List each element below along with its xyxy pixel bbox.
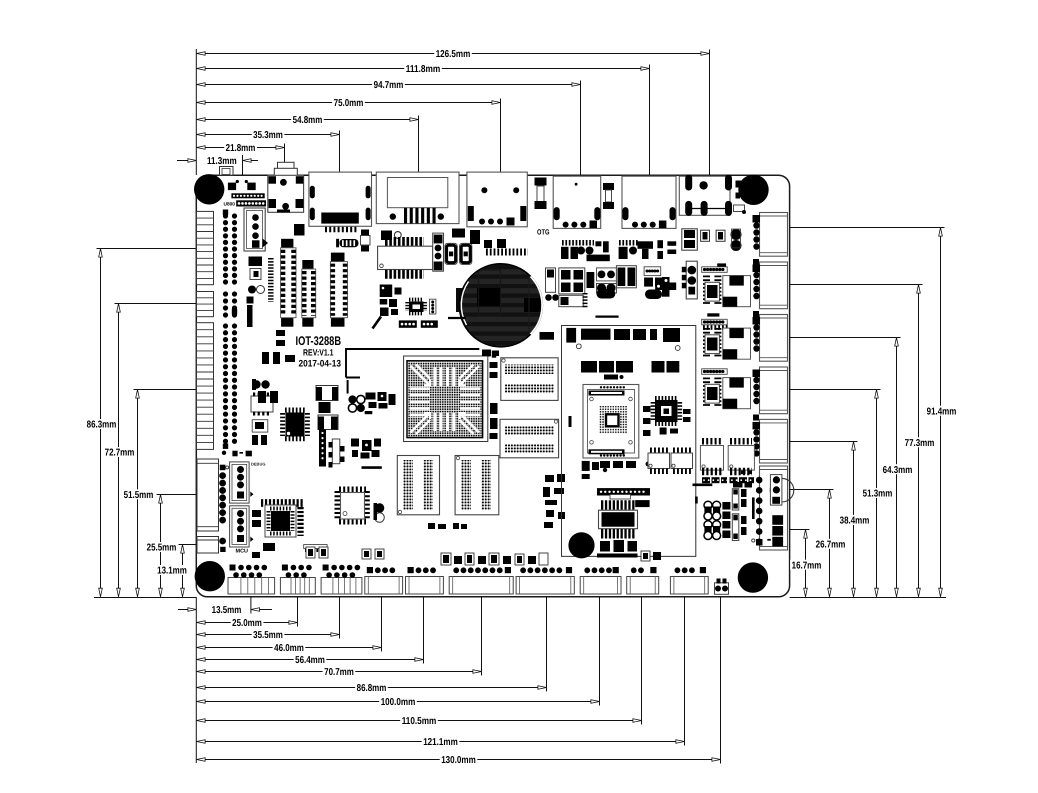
power inductor L2 xyxy=(316,386,338,414)
svg-text:70.7mm: 70.7mm xyxy=(324,667,354,678)
svg-text:126.5mm: 126.5mm xyxy=(436,49,471,60)
dimension 100.0mm (bottom) xyxy=(197,597,600,708)
dimension 38.4mm (right) xyxy=(790,442,871,597)
dimension 121.1mm (bottom) xyxy=(197,597,685,748)
svg-text:11.3mm: 11.3mm xyxy=(207,156,237,167)
vertical connector with pads (right of U3) xyxy=(433,233,444,271)
svg-text:2017-04-13: 2017-04-13 xyxy=(299,359,342,370)
push button SW1 (bottom right) xyxy=(715,579,729,595)
DEBUG connector xyxy=(230,461,266,503)
dimension 11.3mm (top) xyxy=(177,155,258,175)
svg-text:54.8mm: 54.8mm xyxy=(293,115,323,126)
edge connector ladder block 3 xyxy=(197,323,214,450)
power quad part xyxy=(559,268,595,294)
passives pair left xyxy=(252,379,270,390)
small parts above IC U3 xyxy=(361,230,402,252)
small parts right of QFN xyxy=(660,409,691,435)
bottom connector K9 (1-row) xyxy=(627,567,659,594)
keepout vertical continuation xyxy=(347,380,349,394)
dimension baseline (right) xyxy=(790,597,946,599)
dimension 75.0mm (top) xyxy=(197,98,501,176)
two stacked parts with round pads xyxy=(597,268,617,293)
module row 3: transformer xyxy=(723,378,751,409)
caps right xyxy=(701,229,742,251)
tall white box left of battery zone xyxy=(545,268,559,301)
right edge connector CN4 xyxy=(753,367,788,414)
dimension 77.3mm (right) xyxy=(790,285,936,597)
parts above edge boxes xyxy=(222,451,252,457)
CPU socket pin grid xyxy=(599,406,627,434)
SOIC8 U5 xyxy=(648,450,670,471)
pin comb row above QFP U10 xyxy=(260,499,304,507)
svg-text:46.0mm: 46.0mm xyxy=(274,643,304,654)
black square bottom of CN6 dots xyxy=(756,539,763,546)
parts right of OTG xyxy=(734,181,747,215)
comb part with dots xyxy=(644,267,662,287)
HDMI connector J3 xyxy=(309,172,372,229)
DDR module D3 xyxy=(397,456,439,515)
USB stack J6 xyxy=(553,176,601,228)
triangle marker left of FPC1 xyxy=(263,239,269,248)
svg-text:U800: U800 xyxy=(224,201,236,207)
dimension 46.0mm (bottom) xyxy=(197,597,382,654)
right edge connector CN6 (jack + SIM) xyxy=(759,466,787,550)
CPU socket outline xyxy=(583,385,639,459)
svg-text:13.1mm: 13.1mm xyxy=(157,566,187,577)
CPU socket center hole xyxy=(605,413,621,428)
audio jack barrel arc xyxy=(770,478,794,502)
dimension 64.3mm (right) xyxy=(790,338,914,597)
small rect column right of socket xyxy=(643,406,651,436)
svg-text:25.5mm: 25.5mm xyxy=(147,543,177,554)
svg-text:75.0mm: 75.0mm xyxy=(334,98,364,109)
module row 2: SOIC xyxy=(705,328,719,358)
dimension 54.8mm (top) xyxy=(197,115,419,176)
tick column right of pin header xyxy=(268,258,274,302)
IC U3 (wide, top middle) xyxy=(378,242,433,275)
BGA ball grid xyxy=(408,362,482,437)
small parts below DDR D3/D4 xyxy=(428,523,467,529)
small parts inside module mid xyxy=(582,461,608,479)
passives cluster left of SOM xyxy=(543,474,565,528)
bottom connector K10 (1-row) xyxy=(670,567,708,594)
SOM top row of pads xyxy=(566,328,680,343)
dimension 13.5mm (bottom) xyxy=(178,597,272,616)
transformer pair box 1 xyxy=(700,446,723,471)
svg-text:35.3mm: 35.3mm xyxy=(253,130,283,141)
caps row below socket xyxy=(600,461,651,468)
dimension 51.3mm (right) xyxy=(790,390,894,597)
svg-text:56.4mm: 56.4mm xyxy=(295,655,325,666)
electrolytic capsules cluster xyxy=(704,501,721,539)
pin header column group 2 (2x4) xyxy=(226,294,238,315)
svg-text:121.1mm: 121.1mm xyxy=(423,737,458,748)
QFP IC U11 (big, white) xyxy=(338,490,367,522)
module row 2: transformer xyxy=(723,328,751,359)
squares at keepout line end xyxy=(482,332,554,358)
comb strip PMIC area 2 xyxy=(595,241,638,259)
parts above battery xyxy=(452,229,528,253)
BGA white slot glyphs left xyxy=(410,387,430,416)
QFP IC U9 xyxy=(283,410,308,439)
dimension 91.4mm (right) xyxy=(790,228,958,597)
passives column below 4-pin connector xyxy=(247,257,265,328)
SOM vias xyxy=(576,344,680,351)
slash mark xyxy=(373,317,382,329)
pad combs below right pair boxes xyxy=(702,472,754,484)
svg-text:16.7mm: 16.7mm xyxy=(792,560,822,571)
svg-text:86.8mm: 86.8mm xyxy=(357,683,387,694)
svg-text:IOT-3288B: IOT-3288B xyxy=(296,334,342,348)
T-shaped part xyxy=(638,241,654,259)
dimension 70.7mm (bottom) xyxy=(197,597,482,678)
edge connector plain box 2 xyxy=(197,537,219,554)
dimension 111.8mm (top) xyxy=(197,64,650,176)
dimension 16.7mm (right) xyxy=(790,530,823,597)
svg-text:OTG: OTG xyxy=(537,227,550,236)
BGA white diagonal SW xyxy=(411,413,431,434)
small IC U2 (left, with pads) xyxy=(251,395,273,414)
dimension 26.7mm (right) xyxy=(790,490,847,597)
small parts right column xyxy=(741,259,759,474)
module row 3: SOIC xyxy=(705,378,719,408)
svg-text:130.0mm: 130.0mm xyxy=(441,755,476,766)
dimension 126.5mm (top) xyxy=(197,49,710,176)
QFN U12 above BGA xyxy=(407,300,425,314)
pin header column group 3 (2x19) xyxy=(223,326,235,449)
cluster below-mid xyxy=(351,439,381,459)
parts under J1 xyxy=(228,180,256,190)
bottom connector K3 (2-row) xyxy=(321,565,362,595)
SOIC8 U6 xyxy=(671,450,693,471)
tact switch S1 xyxy=(445,243,457,264)
round cap right of U11 xyxy=(374,503,385,522)
svg-text:51.3mm: 51.3mm xyxy=(863,489,893,500)
CPU BGA U8 outline xyxy=(404,356,488,442)
edge connector ladder block 1 xyxy=(197,211,214,284)
svg-text:51.5mm: 51.5mm xyxy=(124,490,154,501)
bottom connector K2 (2-row) xyxy=(280,565,315,595)
comb strip PMIC area 1 xyxy=(561,243,610,261)
BGA white slot glyphs bottom xyxy=(433,413,455,432)
BGA white diagonal NW xyxy=(411,365,431,386)
passives right of BGA xyxy=(482,350,499,440)
module row 3: comb strip xyxy=(702,369,728,375)
bottom connector K6 (1-row) xyxy=(449,567,513,594)
audio jack J2 body xyxy=(268,175,305,235)
svg-text:25.0mm: 25.0mm xyxy=(232,618,262,629)
audio jack body (right) xyxy=(770,475,782,506)
plus-shaped part xyxy=(655,277,676,297)
QFP IC U10 (black with ring) xyxy=(265,505,296,537)
module M1: SOIC xyxy=(705,276,719,306)
dimension baseline (left) xyxy=(94,597,196,599)
module row 2: comb strip xyxy=(702,319,728,325)
four round pads xyxy=(348,395,365,412)
small column parts xyxy=(657,240,676,259)
cluster mid-bottom (440-545) xyxy=(441,553,548,565)
SOM second row of pads xyxy=(581,361,679,380)
dimension 35.3mm (top) xyxy=(197,130,340,176)
pin header column group 1 (2x10) xyxy=(223,210,235,283)
parts left of U10 xyxy=(252,420,275,558)
squares column right of capsules xyxy=(722,502,730,538)
dumbbell part between J6 and J7 xyxy=(603,183,614,209)
dimension 94.7mm (top) xyxy=(197,80,581,176)
module M1: transformer xyxy=(723,276,751,307)
FPC connector F1 xyxy=(281,239,296,327)
svg-text:86.3mm: 86.3mm xyxy=(87,420,117,431)
tall connector with 2 round pads xyxy=(686,261,697,299)
transformer pair box 2 xyxy=(728,446,754,471)
eMMC IC U7 (wide DIP) xyxy=(599,505,638,534)
dimension 13.1mm (left) xyxy=(156,545,197,597)
coin battery BT1 xyxy=(456,264,543,347)
power inductor L3 xyxy=(318,415,338,430)
BGA white slot glyphs top xyxy=(433,368,455,387)
dimension 21.8mm (top) xyxy=(197,143,285,176)
bottom connector K4 (1-row) xyxy=(365,567,403,594)
svg-text:38.4mm: 38.4mm xyxy=(840,516,870,527)
vertical bar left of socket xyxy=(569,416,572,427)
BGA white diagonal SE xyxy=(460,413,480,434)
vertical connector (white, top right) xyxy=(682,229,698,250)
black cluster above capsules xyxy=(733,482,752,488)
svg-text:94.7mm: 94.7mm xyxy=(374,80,404,91)
USB OTG connector J8 xyxy=(679,175,732,216)
svg-text:MCU: MCU xyxy=(236,549,249,555)
bottom connector K5 (1-row) xyxy=(406,567,444,594)
dotted strips below cluster xyxy=(399,320,438,327)
mounting hole bottom-left xyxy=(195,561,225,591)
svg-text:91.4mm: 91.4mm xyxy=(927,406,957,417)
audio jack J2 barrel (above edge) xyxy=(274,162,297,175)
pin header strip H1 xyxy=(702,263,728,272)
mounting hole top-left xyxy=(194,174,224,204)
svg-text:13.5mm: 13.5mm xyxy=(212,605,242,616)
dotted vertical strip xyxy=(319,430,326,467)
vertical comb right xyxy=(297,507,303,536)
FPC connector F3 xyxy=(330,253,347,327)
parts below eMMC xyxy=(597,540,638,558)
mounting hole top-right xyxy=(738,175,768,205)
dimension extension line, left datum (top) xyxy=(195,49,197,175)
svg-text:21.8mm: 21.8mm xyxy=(226,143,256,154)
dimension 56.4mm (bottom) xyxy=(197,597,424,666)
dimension 35.5mm (bottom) xyxy=(197,597,340,641)
dimension 110.5mm (bottom) xyxy=(197,597,642,727)
cluster right-bottom (640-660) xyxy=(641,551,661,561)
cluster right of round pads xyxy=(365,392,396,414)
dimension 86.8mm (bottom) xyxy=(197,597,547,694)
QFN U4 xyxy=(653,398,680,423)
svg-text:110.5mm: 110.5mm xyxy=(402,716,437,727)
SOM module outline xyxy=(562,326,696,557)
svg-text:111.8mm: 111.8mm xyxy=(406,64,441,75)
DDR module D2 xyxy=(500,419,559,458)
dimension 72.7mm (left) xyxy=(103,304,196,597)
SOIC below power quad xyxy=(559,293,585,308)
dot column right of edge boxes xyxy=(219,465,228,552)
silkscreen U800 combs xyxy=(224,193,267,207)
keepout bracket near silkscreen xyxy=(346,349,479,378)
white strip connectors power xyxy=(732,489,746,541)
discretes above U9 xyxy=(258,391,278,403)
dimension 86.3mm (left) xyxy=(85,249,196,597)
bottom connector K1 (2-row) xyxy=(228,565,275,595)
svg-text:64.3mm: 64.3mm xyxy=(883,465,913,476)
right edge connector CN3 xyxy=(753,315,788,362)
svg-text:26.7mm: 26.7mm xyxy=(816,539,846,550)
bottom connector K8 (1-row) xyxy=(580,567,621,594)
coil L1 (row of turns) xyxy=(336,239,358,248)
passives cluster below-left of FPC1 xyxy=(262,330,295,364)
svg-text:DEBUG: DEBUG xyxy=(251,461,265,466)
svg-text:100.0mm: 100.0mm xyxy=(381,697,416,708)
svg-text:77.3mm: 77.3mm xyxy=(905,438,935,449)
crystal Y1 xyxy=(616,266,636,288)
small parts below module M1 xyxy=(703,313,728,326)
connector J1 header (top far left, above edge) xyxy=(220,167,234,176)
board outline xyxy=(196,175,789,597)
svg-text:REV:V1.1: REV:V1.1 xyxy=(303,348,334,358)
discrete pairs row above bottom connectors xyxy=(306,547,384,559)
MCU connector xyxy=(230,506,254,547)
dash mark xyxy=(362,466,382,469)
LVDS connector J4 xyxy=(376,172,459,224)
BGA white slot glyphs right xyxy=(460,387,480,416)
bottom connector K7 (1-row) xyxy=(516,567,574,594)
SIM holder (right, black) xyxy=(752,497,783,546)
mounting hole bottom-right xyxy=(738,562,768,592)
tact switch S2 xyxy=(460,243,472,264)
RJ45 connector J5 xyxy=(467,172,527,227)
BGA white diagonal NE xyxy=(460,365,480,386)
dash line under cluster xyxy=(595,316,618,318)
USB stack J7 xyxy=(622,176,676,228)
cylinder caps row xyxy=(597,289,663,299)
svg-text:72.7mm: 72.7mm xyxy=(105,448,135,459)
DDR module D4 xyxy=(455,456,499,515)
pin connector (4-pin, upper left) xyxy=(244,208,265,251)
camera lens (black circle) xyxy=(568,532,594,558)
edge connector plain box 1 xyxy=(197,459,219,531)
FPC connector F2 xyxy=(302,260,316,327)
column of squares left of tall connector xyxy=(682,267,687,289)
passive squares cluster above BGA xyxy=(380,285,402,317)
dumbbell part between J5 and J6 xyxy=(535,178,547,210)
dimension 130.0mm (bottom) xyxy=(197,597,721,766)
dimension extension line, left datum (bottom) xyxy=(195,597,197,763)
long comb strip above eMMC xyxy=(597,488,650,507)
dimension 51.5mm (left) xyxy=(122,390,196,597)
comb strip below U11 xyxy=(304,545,327,550)
right edge connector CN1 xyxy=(753,213,788,257)
dash line left xyxy=(448,317,466,319)
DDR module D1 xyxy=(501,358,558,401)
dimension 25.0mm (bottom) xyxy=(197,597,298,629)
right edge connector CN2 xyxy=(753,262,788,309)
pad combs above right pair boxes xyxy=(702,438,752,445)
dimension 25.5mm (left) xyxy=(145,495,196,597)
edge connector ladder block 2 xyxy=(197,292,214,317)
right edge connector CN5 xyxy=(753,419,788,463)
SOM corner bus marks xyxy=(693,485,713,504)
vertical connector strip xyxy=(329,439,345,468)
svg-text:35.5mm: 35.5mm xyxy=(253,630,283,641)
pin header right of U12 xyxy=(430,299,436,314)
